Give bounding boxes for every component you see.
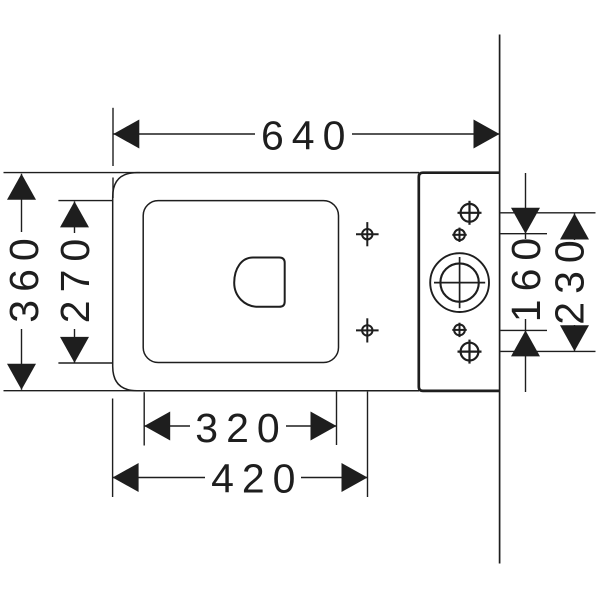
dim 230 extension line (bottom) [501,350,596,352]
cistern crosshair circle (bottom) [458,340,482,364]
dim 640 text [255,116,352,152]
dim 420 extension line (left) [112,399,114,498]
svg-text:320: 320 [195,405,287,451]
dim 160 extension line (top) [501,233,548,235]
dim 360 extension line (top) [4,172,141,174]
dim 160 extension line (bottom) [501,329,548,331]
svg-text:270: 270 [52,231,98,323]
dim 320 line [144,425,336,427]
dim 270 extension line (top) [58,200,112,202]
dim 230 line [574,214,576,352]
toilet body outline (top view) [113,173,419,391]
dim 160 arrow top [511,208,540,234]
svg-text:230: 230 [546,232,592,324]
dim 270 text [57,233,93,329]
dim 270 arrow bottom [60,337,89,363]
flush valve double circle [430,253,489,312]
dim 320 text [190,408,286,444]
dim 160 text [507,239,543,319]
svg-text:160: 160 [503,230,549,322]
seat fixing hole crosshair (body, top) [356,222,379,246]
cistern crosshair circle (top) [458,201,482,225]
dim 230 extension line (top) [501,212,596,214]
dim 640 arrow left [113,120,139,149]
dim 360 extension line (bottom) [4,390,141,392]
dim 360 arrow top [7,174,36,200]
dim 420 text [205,460,301,496]
dim 230 text [553,240,589,325]
dim 420 line [113,477,368,479]
cistern outline [419,173,500,391]
svg-text:360: 360 [1,230,47,322]
dim 320 extension line (left) [143,392,145,445]
drain outlet blob [234,258,285,307]
svg-text:420: 420 [211,455,303,501]
dim 360 arrow bottom [7,364,36,390]
svg-text:640: 640 [261,112,353,158]
dim 360 line [21,174,23,390]
dim 230 arrow top [560,214,589,240]
dim 160 arrow bottom [511,330,540,356]
seat fixing hole crosshair (body, bottom) [356,318,379,342]
dim 420 extension line (right) [367,392,369,497]
dim 320 extension line (right) [336,392,338,445]
cistern small crosshair (top) [452,228,466,242]
dim 320 arrow right [311,412,337,441]
dim 160 line [525,173,527,392]
dim 420 arrow right [342,463,368,492]
dim 640 extension line (left) [112,108,114,166]
dim 640 extension line lower segment [112,178,114,199]
dim 640 line [113,133,499,135]
dim 270 arrow top [60,201,89,227]
dim 270 line [74,201,76,363]
dim 420 arrow left [113,463,139,492]
wall line [499,35,501,564]
dim 270 extension line (bottom) [58,362,112,364]
dim 320 arrow left [144,412,170,441]
cistern small crosshair (bottom) [452,323,466,337]
dim 640 arrow right [474,120,500,149]
dim 230 arrow bottom [560,325,589,351]
inner rim [143,201,338,363]
dim 360 text [5,232,41,329]
